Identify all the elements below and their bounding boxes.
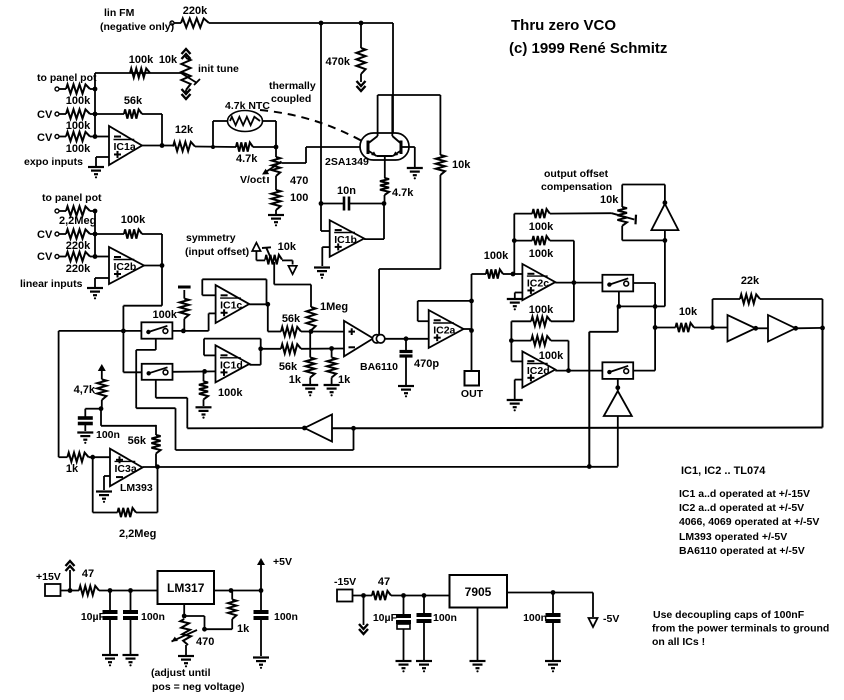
svg-text:IC1d: IC1d	[220, 359, 243, 371]
svg-text:IC2 a..d operated at +/-5V: IC2 a..d operated at +/-5V	[679, 502, 804, 514]
svg-text:100k: 100k	[529, 304, 554, 316]
svg-text:-15V: -15V	[334, 576, 356, 588]
svg-text:4.7k: 4.7k	[236, 153, 258, 165]
svg-text:100k: 100k	[529, 221, 554, 233]
svg-text:(negative only): (negative only)	[100, 21, 174, 33]
svg-text:compensation: compensation	[541, 181, 612, 193]
svg-text:1k: 1k	[66, 463, 79, 475]
svg-text:(input offset): (input offset)	[185, 246, 249, 258]
svg-text:Use decoupling caps of 100nF: Use decoupling caps of 100nF	[653, 609, 805, 621]
svg-text:to panel pot: to panel pot	[42, 192, 102, 204]
svg-text:470: 470	[290, 175, 308, 187]
svg-text:470k: 470k	[326, 56, 351, 68]
svg-text:12k: 12k	[175, 124, 194, 136]
svg-text:1k: 1k	[338, 374, 351, 386]
svg-text:10k: 10k	[679, 306, 698, 318]
svg-text:2,2Meg: 2,2Meg	[59, 215, 96, 227]
svg-text:56k: 56k	[279, 361, 298, 373]
svg-text:4.7k: 4.7k	[392, 187, 414, 199]
svg-text:coupled: coupled	[271, 93, 311, 105]
svg-text:(c) 1999 René Schmitz: (c) 1999 René Schmitz	[509, 40, 667, 57]
svg-text:100k: 100k	[66, 95, 91, 107]
svg-text:IC3a: IC3a	[115, 463, 137, 475]
svg-text:LM317: LM317	[167, 581, 205, 595]
svg-text:to panel pot: to panel pot	[37, 72, 97, 84]
svg-text:100k: 100k	[218, 387, 243, 399]
svg-text:470: 470	[196, 636, 214, 648]
svg-text:470p: 470p	[414, 358, 439, 370]
svg-text:Thru zero VCO: Thru zero VCO	[511, 17, 616, 34]
svg-text:100n: 100n	[96, 429, 120, 441]
svg-text:10µF: 10µF	[373, 612, 398, 624]
svg-text:1Meg: 1Meg	[320, 301, 348, 313]
svg-text:100n: 100n	[523, 612, 547, 624]
svg-text:100n: 100n	[274, 611, 298, 623]
svg-text:IC2d: IC2d	[527, 365, 550, 377]
svg-text:from the power terminals to gr: from the power terminals to ground	[652, 623, 829, 635]
svg-text:OUT: OUT	[461, 388, 484, 400]
svg-text:100n: 100n	[141, 611, 165, 623]
svg-text:CV: CV	[37, 132, 53, 144]
svg-text:CV: CV	[37, 109, 53, 121]
svg-text:symmetry: symmetry	[186, 232, 236, 244]
svg-text:LM393: LM393	[120, 482, 153, 494]
svg-text:100k: 100k	[66, 120, 91, 132]
svg-text:100k: 100k	[529, 248, 554, 260]
svg-text:+5V: +5V	[273, 556, 292, 568]
svg-text:output offset: output offset	[544, 168, 609, 180]
svg-text:IC2b: IC2b	[114, 261, 137, 273]
svg-text:linear inputs: linear inputs	[20, 278, 83, 290]
svg-text:10n: 10n	[337, 185, 356, 197]
svg-text:CV: CV	[37, 251, 53, 263]
svg-text:IC2a: IC2a	[433, 325, 455, 337]
svg-text:pos = neg voltage): pos = neg voltage)	[152, 681, 244, 693]
svg-text:100: 100	[290, 192, 308, 204]
svg-text:V/oct: V/oct	[240, 174, 266, 186]
svg-text:1k: 1k	[237, 623, 250, 635]
svg-text:LM393 operated +/-5V: LM393 operated +/-5V	[679, 531, 787, 543]
svg-text:2SA1349: 2SA1349	[325, 156, 369, 168]
svg-text:56k: 56k	[124, 95, 143, 107]
svg-text:CV: CV	[37, 229, 53, 241]
svg-text:22k: 22k	[741, 275, 760, 287]
svg-text:-5V: -5V	[603, 613, 619, 625]
svg-text:thermally: thermally	[269, 80, 316, 92]
svg-text:IC2c: IC2c	[527, 278, 549, 290]
svg-text:100n: 100n	[433, 612, 457, 624]
svg-text:IC1c: IC1c	[220, 300, 242, 312]
svg-text:1k: 1k	[289, 374, 302, 386]
svg-text:100k: 100k	[153, 309, 178, 321]
svg-text:7905: 7905	[465, 585, 492, 599]
svg-text:10k: 10k	[600, 194, 619, 206]
svg-text:100k: 100k	[484, 250, 509, 262]
svg-text:10k: 10k	[278, 241, 297, 253]
svg-text:expo inputs: expo inputs	[24, 156, 83, 168]
svg-text:+15V: +15V	[36, 571, 61, 583]
svg-text:47: 47	[82, 568, 94, 580]
svg-text:56k: 56k	[282, 313, 301, 325]
svg-text:BA6110 operated at +/-5V: BA6110 operated at +/-5V	[679, 545, 805, 557]
svg-text:220k: 220k	[66, 240, 91, 252]
svg-text:4,7k: 4,7k	[74, 384, 96, 396]
svg-text:220k: 220k	[183, 5, 208, 17]
svg-text:on all ICs !: on all ICs !	[652, 636, 705, 648]
svg-text:IC1b: IC1b	[334, 234, 357, 246]
svg-text:47: 47	[378, 576, 390, 588]
svg-text:BA6110: BA6110	[360, 361, 398, 373]
svg-text:100k: 100k	[66, 143, 91, 155]
svg-text:IC1 a..d operated at +/-15V: IC1 a..d operated at +/-15V	[679, 488, 810, 500]
svg-text:10k: 10k	[452, 159, 471, 171]
svg-text:56k: 56k	[128, 435, 147, 447]
svg-text:(adjust until: (adjust until	[151, 667, 211, 679]
svg-text:lin FM: lin FM	[104, 7, 135, 19]
svg-text:220k: 220k	[66, 263, 91, 275]
svg-text:10k: 10k	[159, 54, 178, 66]
svg-text:IC1a: IC1a	[114, 141, 136, 153]
svg-text:2,2Meg: 2,2Meg	[119, 528, 156, 540]
svg-text:init tune: init tune	[198, 63, 239, 75]
svg-text:IC1, IC2 .. TL074: IC1, IC2 .. TL074	[681, 465, 766, 477]
svg-text:10µF: 10µF	[81, 611, 106, 623]
svg-text:4066, 4069 operated at +/-5V: 4066, 4069 operated at +/-5V	[679, 516, 819, 528]
svg-text:100k: 100k	[129, 54, 154, 66]
svg-text:100k: 100k	[121, 214, 146, 226]
svg-text:100k: 100k	[539, 350, 564, 362]
